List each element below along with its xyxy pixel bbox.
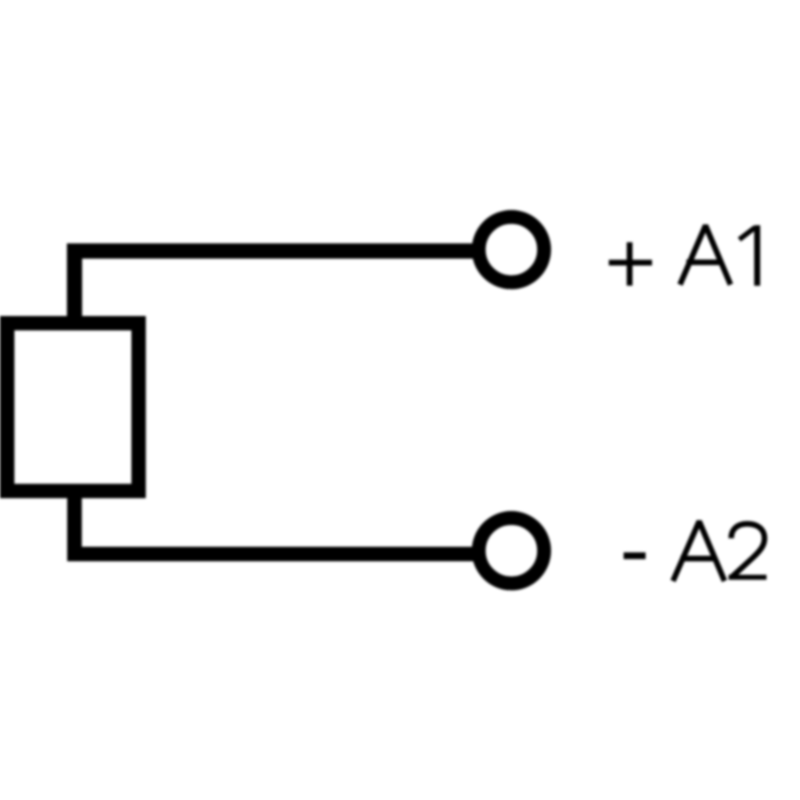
wire coil top to terminal A1 bbox=[75, 251, 479, 323]
wire coil bottom to terminal A2 bbox=[75, 490, 479, 554]
label "A" of A2 bbox=[673, 521, 725, 581]
coil K (relay coil rectangle) bbox=[7, 323, 138, 491]
terminal A2 (ring) bbox=[479, 518, 544, 583]
label "1" of A1 bbox=[754, 225, 760, 286]
label "+" (polarity of A1) bbox=[609, 242, 652, 285]
label "-" (polarity of A2) bbox=[624, 552, 646, 559]
terminal A1 (ring) bbox=[479, 217, 544, 282]
label "2" of A2 bbox=[731, 524, 764, 577]
label "A" of A1 bbox=[680, 226, 731, 285]
